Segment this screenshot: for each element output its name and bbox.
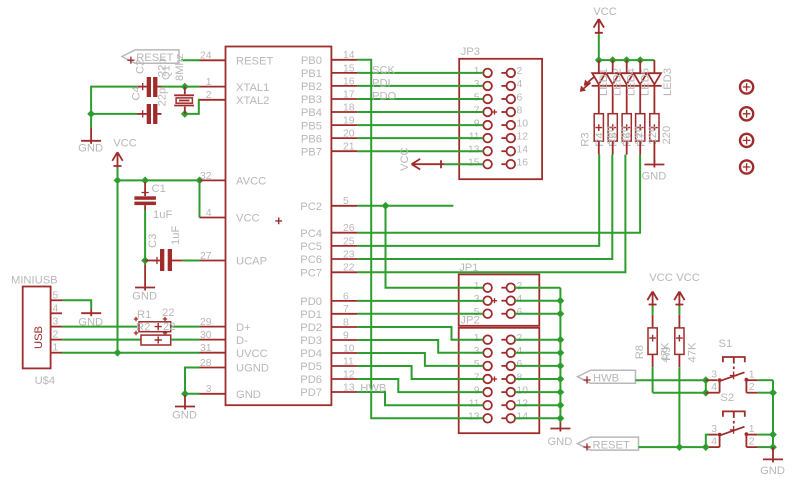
svg-text:PB4: PB4 [301,107,322,119]
svg-text:24: 24 [200,51,212,62]
wire net XTAL2 (crystal bottom to IC) [185,100,200,114]
svg-text:PB3: PB3 [301,94,322,106]
svg-text:GND: GND [236,389,261,401]
LED D2 [612,60,614,73]
svg-text:14: 14 [517,145,529,156]
capacitor C2 [137,86,147,88]
wire net PD6 to JP2.9 [357,379,483,392]
svg-text:PC5: PC5 [300,241,322,253]
resistor R2 22 [141,335,171,345]
svg-text:U$4: U$4 [35,375,56,387]
capacitor C4 [137,113,147,115]
svg-text:22p: 22p [157,88,169,107]
junction GND rail y=313.7 [557,310,565,318]
pin wire GND pin 3 [200,393,226,395]
svg-text:10: 10 [517,118,529,129]
wire S1 to GND rail [758,379,773,381]
wire net GND rail right of JP1/JP2 [515,287,560,289]
junction LED bus x=640.2 [636,56,644,64]
svg-text:VCC: VCC [649,272,673,284]
resistor R4 220 [608,114,617,141]
crystal Q1 [184,87,186,95]
switch S2 [709,434,718,436]
svg-text:LED3: LED3 [662,68,674,96]
wire VCC to R9 [678,306,680,315]
ground symbol GND (C3) [144,265,146,291]
svg-text:JP3: JP3 [461,46,480,58]
pin wire UGND pin 28 [200,367,226,369]
pin wire RESET pin 24 [200,59,226,61]
svg-text:VCC: VCC [399,147,411,171]
wire R3 bottom to GND [653,141,655,163]
svg-text:PD7: PD7 [300,387,322,399]
svg-text:PB0: PB0 [301,55,322,67]
pin wire UVCC pin 31 [200,352,226,354]
svg-text:2: 2 [749,436,755,447]
pin wire UCAP pin 27 [200,260,226,262]
svg-text:10: 10 [517,385,529,396]
wire net D- (USB pin2 to R2) [62,339,141,341]
svg-text:VCC: VCC [236,213,260,225]
wire net RESET (flag to IC pin 24) [181,59,200,61]
svg-text:4: 4 [711,382,717,393]
svg-text:6: 6 [517,359,523,370]
LED photon arrows [583,77,595,90]
resistor R6 220 [636,114,645,141]
svg-text:28: 28 [200,358,212,369]
wire USB pin5 shield to GND [62,300,91,308]
svg-text:UCAP: UCAP [236,256,267,268]
wire net PB6 to JP3.11 [357,137,483,139]
svg-text:4: 4 [206,208,212,219]
wire net PC6 (to LED resistor R5) [357,155,612,259]
svg-text:PB6: PB6 [301,133,322,145]
svg-text:PDI: PDI [372,77,391,89]
ground symbol GND (JP rail) [559,422,561,432]
ground symbol GND (USB) [90,309,92,317]
svg-text:C3: C3 [147,234,159,248]
svg-text:8: 8 [517,105,523,116]
svg-text:PC2: PC2 [300,201,322,213]
svg-text:1: 1 [474,333,480,344]
svg-text:220: 220 [647,126,659,145]
svg-text:R3: R3 [580,132,592,146]
svg-text:PD5: PD5 [300,361,322,373]
junction XTAL1 [181,83,189,91]
svg-text:PC7: PC7 [300,268,322,280]
wire net PDO PB3 to JP3.5 [357,98,483,100]
svg-text:6: 6 [517,307,523,318]
svg-text:PD3: PD3 [300,335,322,347]
wire net D- (R2 to IC) [171,339,200,341]
junction LED bus x=612.7 [609,56,617,64]
svg-text:47K: 47K [687,342,699,362]
wire net HWB (flag to S1) [636,379,706,381]
ground symbol GND (LED) [653,160,655,168]
svg-text:HWB: HWB [593,372,619,384]
svg-text:5: 5 [474,92,480,103]
wire net UGND to GND [185,368,200,394]
svg-text:D-: D- [236,335,248,347]
svg-text:PD4: PD4 [300,348,322,360]
svg-text:4: 4 [517,294,523,305]
svg-text:GND: GND [78,143,103,155]
svg-text:R4: R4 [594,132,606,146]
svg-text:R2: R2 [136,322,150,334]
junction GND rail y=365.9 [557,362,565,370]
wire net VCC left rail [117,168,119,353]
svg-text:12: 12 [517,131,529,142]
svg-text:6: 6 [517,92,523,103]
pin wires IC right side [331,59,357,61]
svg-text:1: 1 [53,343,59,354]
svg-text:3: 3 [206,384,212,395]
svg-text:GND: GND [547,436,572,448]
svg-text:1: 1 [749,370,755,381]
wire net VCC LED bus [598,34,600,60]
junction UGND/GND [181,390,189,398]
svg-text:2: 2 [517,66,523,77]
svg-text:PB5: PB5 [301,120,322,132]
resistor R3 220 [594,114,603,141]
junction LED bus x=598.8 [595,56,603,64]
svg-text:XTAL1: XTAL1 [236,82,269,94]
net flag RESET (bottom) [578,437,639,450]
svg-text:VCC: VCC [113,138,137,150]
svg-text:RESET: RESET [593,439,630,451]
svg-text:D+: D+ [236,322,251,334]
pin wire XTAL2 pin 2 [200,99,226,101]
junction PC2 [382,202,390,210]
svg-text:PD1: PD1 [300,309,322,321]
svg-text:3: 3 [711,424,717,435]
svg-text:AVCC: AVCC [236,176,266,188]
svg-text:R8: R8 [634,345,646,359]
svg-text:9: 9 [474,385,480,396]
resistor R8 47K [652,315,654,328]
junction GND rail y=300.7 [557,297,565,305]
svg-text:R7: R7 [636,132,648,146]
resistor R1 22 [139,322,171,332]
svg-text:31: 31 [200,343,212,354]
resistor R7 220 [650,114,659,141]
svg-text:PB2: PB2 [301,81,322,93]
svg-text:27: 27 [200,251,212,262]
svg-text:VCC: VCC [593,6,617,18]
wire net PD0 to JP1.3 [357,300,483,302]
mounting hole H2 [740,107,753,120]
svg-text:13: 13 [468,412,480,423]
svg-text:16: 16 [517,158,529,169]
wire net PB4 to JP3.7 [357,111,483,113]
svg-text:C1: C1 [152,183,166,195]
wire net SCK PB1 to JP3.1 [357,72,483,74]
pin wire D- pin 30 [200,339,226,341]
wire net UCAP [182,260,200,262]
svg-text:30: 30 [200,330,212,341]
wire net PC7 (to LED resistor R6) [357,155,625,273]
junction C1 top [141,177,149,185]
junction LED bus x=626.7 [623,56,631,64]
svg-text:USB: USB [33,326,45,349]
svg-text:S2: S2 [720,392,734,404]
wire net PC2 [357,205,453,207]
svg-text:Q1: Q1 [161,65,173,80]
svg-text:VCC: VCC [676,272,700,284]
svg-text:R5: R5 [608,132,620,146]
svg-text:R1: R1 [137,309,151,321]
svg-text:11: 11 [469,399,480,410]
svg-text:3: 3 [474,346,480,357]
svg-text:LED4: LED4 [626,68,638,96]
svg-text:4: 4 [53,303,59,314]
svg-text:R9: R9 [661,347,673,361]
junction S2.2 rail [769,443,777,451]
junction GND rail y=339.7 [557,336,565,344]
mounting hole H3 [740,134,753,147]
svg-text:PDO: PDO [372,91,397,103]
junction GND rail y=352.8 [557,349,565,357]
wire VCC to R8 [652,306,654,315]
wire net D+ (R1 to IC) [171,326,200,328]
capacitor C1 [144,182,146,196]
pin wire VCC pin 4 [200,217,226,219]
wire net PD5 to JP2.7 [357,366,483,379]
svg-text:PC4: PC4 [300,228,322,240]
svg-text:PC6: PC6 [300,254,322,266]
svg-text:GND: GND [641,171,666,183]
pin wire D+ pin 29 [200,326,226,328]
junction GND rail y=405.2 [557,401,565,409]
junction GND left [87,110,95,118]
LED D1 [598,60,600,73]
svg-text:2: 2 [53,330,59,341]
wire net PD1 to JP1.5 [357,313,483,315]
svg-text:3: 3 [474,294,480,305]
wire net D+ (USB pin3 to R1) [62,326,139,328]
svg-text:5: 5 [53,290,59,301]
svg-text:3: 3 [474,79,480,90]
svg-text:4: 4 [517,346,523,357]
svg-text:12: 12 [517,399,529,410]
wire net HWB PD7 to JP2.11 [357,392,483,405]
svg-text:GND: GND [760,465,785,477]
wire net PD3 to JP2.3 [357,340,483,353]
svg-text:1: 1 [474,281,480,292]
wire net PB5 to JP3.9 [357,124,483,126]
svg-text:1uF: 1uF [170,226,182,245]
svg-text:1: 1 [206,77,212,88]
svg-text:PD0: PD0 [300,296,322,308]
wire R9 bottom to RESET net [678,367,680,447]
LED D4 [639,60,641,73]
wire R8 bottom to HWB net [652,367,654,393]
resistor R9 47K [678,315,680,328]
svg-text:1: 1 [749,424,755,435]
svg-text:2: 2 [206,90,212,101]
svg-text:3: 3 [53,317,59,328]
junction S1.2 rail [769,389,777,397]
resistor R5 220 [622,114,631,141]
svg-text:SCK: SCK [372,64,396,76]
junction HWB S1.4 [702,389,710,397]
svg-text:29: 29 [200,317,212,328]
wire net PD4 to JP2.5 [357,353,483,366]
svg-text:HWB: HWB [360,382,386,394]
wire net XTAL1 (C2 right to junction to IC) [162,86,200,88]
svg-text:JP2: JP2 [460,315,479,327]
junction XTAL2 [181,110,189,118]
junction HWB S1.3 [702,376,710,384]
svg-text:2: 2 [517,281,523,292]
junction GND rail y=379.0 [557,375,565,383]
junction RESET/R9 [676,443,684,451]
junction AVCC corner [196,177,204,185]
switch S1 [706,379,718,381]
svg-text:PB7: PB7 [301,146,322,158]
pin wire XTAL1 pin 1 [200,86,226,88]
svg-text:7: 7 [474,105,480,116]
wire net PC4 (to LED resistor R7) [357,155,640,233]
svg-text:22: 22 [162,307,174,319]
svg-text:11: 11 [469,131,480,142]
net flag RESET (top) [122,50,179,63]
svg-text:1uF: 1uF [153,209,172,221]
svg-text:GND: GND [172,410,197,422]
ground symbol GND (switches) [772,447,774,462]
junction C3 left [141,257,149,265]
svg-text:1: 1 [474,66,480,77]
wire net RESET (flag to S2) [639,446,706,448]
svg-text:PB1: PB1 [301,68,322,80]
svg-text:RESET: RESET [236,56,273,68]
svg-text:5: 5 [474,359,480,370]
svg-text:UVCC: UVCC [236,348,268,360]
wire net PB7 to JP3.13 [357,150,483,152]
svg-text:PD6: PD6 [300,374,322,386]
mounting hole H1 [740,80,753,93]
pin wire AVCC pin 32 [200,179,226,181]
wire LED R bottoms red leads [598,141,600,155]
ground symbol GND (crystal) [90,128,92,144]
LED D3 [626,60,628,73]
wire net VCC to JP3.15 [445,163,484,165]
wire S2 to GND rail [758,434,773,436]
svg-text:LED1: LED1 [598,68,610,96]
wire C1 to C3/GND [144,210,146,265]
op-amp U1 microcontroller IC (AT90USB) [226,47,332,406]
junction GND rail y=418.3 [557,414,565,422]
LED D5 [653,60,655,73]
svg-text:8: 8 [517,372,523,383]
svg-text:XTAL2: XTAL2 [236,95,269,107]
svg-text:GND: GND [132,291,157,303]
svg-text:PD2: PD2 [300,322,322,334]
svg-text:9: 9 [474,118,480,129]
wire net VBUS (USB pin1 to UVCC) [62,352,200,354]
svg-text:7: 7 [474,372,480,383]
svg-text:2: 2 [749,382,755,393]
connector U$4 MINIUSB [23,287,51,369]
svg-text:S1: S1 [719,338,733,350]
svg-text:UGND: UGND [236,363,269,375]
svg-text:220: 220 [661,126,673,145]
junction RESET S2.4 [702,443,710,451]
svg-text:C2: C2 [135,60,147,74]
net flag HWB [578,370,636,383]
svg-text:LED2: LED2 [612,68,624,96]
svg-text:32: 32 [200,171,212,182]
svg-text:MINIUSB: MINIUSB [11,275,58,287]
svg-text:3: 3 [711,370,717,381]
junction VBUS/VCC rail [114,349,122,357]
wire net PDI PB2 to JP3.3 [357,85,483,87]
svg-text:15: 15 [468,158,480,169]
wire net PC5 (to LED resistor R4) [357,155,599,246]
junction VCC/AVCC [114,177,122,185]
ground symbol GND (IC) [184,395,186,410]
svg-text:2: 2 [517,333,523,344]
svg-text:13: 13 [468,145,480,156]
junction S2.1 rail [769,431,777,439]
wire GND left of C2/C4 [91,87,137,128]
svg-text:4: 4 [711,436,717,447]
svg-text:LED5: LED5 [640,68,652,96]
svg-text:C4: C4 [131,86,143,100]
mounting hole H4 [740,160,753,173]
junction GND rail y=392.1 [557,388,565,396]
wire net PD2 to JP2.1 [357,327,483,340]
svg-text:8Mhz: 8Mhz [174,53,186,81]
capacitor C3 [145,260,160,262]
svg-text:4: 4 [517,79,523,90]
wire net PB0 (to JP2 pin 13) [357,60,483,419]
svg-text:14: 14 [517,412,529,423]
